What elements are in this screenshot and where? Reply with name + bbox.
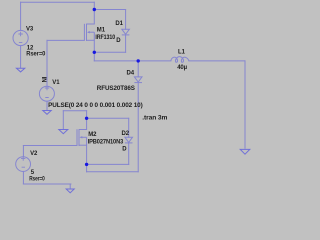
- wire V2 bottom: [22, 171, 24, 184]
- wire branch to D1 anode: [94, 9, 125, 11]
- ground at M2 drain: [59, 130, 68, 134]
- wire D1 bottom lead: [125, 35, 127, 52]
- voltage source V1: [39, 86, 54, 101]
- junction node M2 source / D2: [85, 163, 88, 166]
- ground at V1: [43, 111, 51, 115]
- wire bottom M2 source to D4 column: [87, 171, 139, 173]
- svg-text:D1: D1: [115, 21, 123, 27]
- wire M2 source to D2 cathode: [87, 163, 129, 165]
- voltage source V3: [13, 30, 28, 45]
- svg-text:.tran 3m: .tran 3m: [142, 116, 167, 122]
- nmos transistor M2: [77, 129, 87, 146]
- wire M2 drain to D2 anode: [87, 117, 129, 119]
- svg-text:M1: M1: [97, 27, 106, 33]
- svg-text:IN: IN: [40, 77, 46, 83]
- svg-text:RFUS20T86S: RFUS20T86S: [97, 86, 135, 92]
- wire D4 cathode long lead down: [137, 83, 139, 172]
- wire V2 riser: [22, 146, 24, 157]
- wire V2 bottom elbow right: [23, 183, 71, 185]
- wire M2 gate: [23, 145, 77, 147]
- voltage source V2: [16, 156, 31, 171]
- wire D1 cathode to M1 source: [94, 51, 125, 53]
- svg-text:IPB027N10N3: IPB027N10N3: [88, 139, 124, 145]
- svg-text:V1: V1: [52, 80, 60, 86]
- wire M2 drain: [86, 111, 88, 130]
- wire M1 drain: [93, 2, 95, 24]
- wire ground stub V2: [69, 184, 71, 189]
- ground at V3: [16, 68, 24, 72]
- wire D1 top lead: [125, 10, 127, 30]
- diode D4: [134, 77, 142, 83]
- svg-text:V2: V2: [30, 151, 38, 157]
- svg-text:Rser=0: Rser=0: [26, 51, 46, 57]
- svg-text:12: 12: [27, 45, 34, 51]
- diode D1: [122, 29, 130, 35]
- wire M1 source down to mid rail: [93, 40, 95, 61]
- junction node M2 drain / D2: [85, 117, 88, 120]
- svg-text:M2: M2: [88, 132, 97, 138]
- wire mid rail right of L1: [189, 60, 245, 62]
- wire D2 bottom lead: [128, 143, 130, 165]
- svg-text:Rser=0: Rser=0: [29, 177, 45, 183]
- svg-text:D4: D4: [127, 70, 135, 76]
- wire top rail V3 to M1 drain: [21, 1, 95, 3]
- junction node M1 drain / D1: [93, 8, 96, 11]
- wire D2 top lead: [128, 118, 130, 137]
- nmos transistor M1: [84, 24, 94, 41]
- wire M1 gate: [47, 39, 84, 41]
- ground at right column: [240, 149, 250, 154]
- wire V1 riser node IN: [46, 40, 48, 86]
- wire D4 top lead: [137, 61, 139, 77]
- diode D2: [125, 137, 133, 143]
- wire right column down: [244, 61, 246, 148]
- svg-text:L1: L1: [178, 50, 186, 56]
- wire V3 bottom to ground: [20, 46, 22, 69]
- wire V1 bottom to ground: [46, 101, 48, 110]
- svg-text:D2: D2: [122, 131, 130, 137]
- svg-text:IRF1310: IRF1310: [95, 35, 115, 41]
- svg-text:V3: V3: [26, 26, 34, 32]
- wire M2 source column: [86, 145, 88, 172]
- wire V3 top riser: [20, 2, 22, 30]
- wire ground riser at M2 drain: [62, 111, 64, 130]
- ground at V2: [66, 189, 74, 193]
- wire mid rail left of L1: [94, 60, 171, 62]
- svg-text:PULSE(0 24 0 0 0 0.001 0.002 1: PULSE(0 24 0 0 0 0.001 0.002 10): [48, 103, 143, 109]
- wire ground elbow to M2 drain: [63, 110, 86, 112]
- inductor L1: [171, 57, 189, 63]
- svg-text:40µ: 40µ: [177, 65, 187, 71]
- junction node rail / D4 / L1: [137, 59, 140, 62]
- junction node M1 source / D1: [93, 51, 96, 54]
